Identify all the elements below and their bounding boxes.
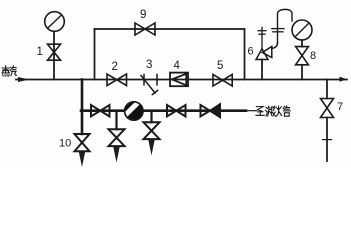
svg-text:3: 3: [146, 59, 152, 71]
manifold valve (right hollow): [167, 105, 186, 116]
drain spike under third drain valve: [148, 140, 154, 156]
drain spike under second drain valve: [113, 147, 119, 163]
svg-text:10: 10: [59, 138, 71, 150]
manifold valve (left, unnumbered): [91, 105, 110, 116]
wire: safety valve vent pigtail: [272, 43, 278, 49]
valve 7: [321, 99, 334, 118]
wire: riser to gauge PG1: [53, 32, 55, 80]
valve 8: [296, 47, 309, 65]
pressure gauge PG2: [292, 20, 312, 40]
svg-text:8: 8: [310, 50, 316, 62]
wire: condensate manifold: [81, 109, 246, 112]
svg-text:5: 5: [217, 60, 223, 72]
wire: stem of third drain valve: [150, 111, 152, 123]
wire: stem of second drain valve: [115, 111, 117, 130]
wire: bypass left riser: [94, 29, 96, 80]
thermometer 3: [141, 75, 158, 95]
wire: drop below valve 7 with break: [326, 118, 328, 162]
spring of safety valve 6: [258, 28, 266, 49]
valve 10: [75, 134, 90, 151]
steam trap: [123, 101, 143, 120]
node: union on vent pipe: [272, 29, 284, 32]
valve 9: [135, 23, 155, 35]
safety valve 6: [256, 47, 272, 60]
wire: stem of safety valve 6: [261, 60, 263, 80]
wire: main steam line: [16, 79, 347, 81]
svg-text:7: 7: [337, 101, 343, 113]
wire: branch down to valve 7: [326, 80, 328, 99]
wire: thick drain drop: [81, 80, 84, 135]
node: outlet flow arrow: [340, 77, 348, 82]
svg-text:2: 2: [112, 61, 118, 73]
wire: bypass top run: [95, 28, 245, 30]
wire: bypass right drop: [244, 29, 246, 80]
drain spike under valve 10: [79, 152, 85, 167]
wire: thin tail to condensate label: [246, 110, 257, 112]
label: steam (蒸汽): [2, 66, 16, 76]
third drain valve: [144, 122, 160, 139]
svg-text:1: 1: [37, 46, 43, 58]
valve 5: [213, 74, 232, 86]
svg-text:4: 4: [174, 60, 181, 72]
svg-text:6: 6: [248, 46, 254, 58]
label: to condensate pipe (至凝水管): [256, 106, 290, 117]
valve 2: [107, 74, 127, 86]
check valve (half solid): [201, 104, 221, 117]
svg-text:9: 9: [140, 9, 146, 21]
pressure reducing valve 4: [170, 73, 188, 87]
valve 1: [48, 44, 61, 60]
pressure gauge PG1: [45, 12, 65, 32]
second drain valve: [109, 129, 125, 146]
node: inlet flow arrow: [18, 77, 29, 82]
wire: stem of gauge PG2: [301, 40, 303, 79]
